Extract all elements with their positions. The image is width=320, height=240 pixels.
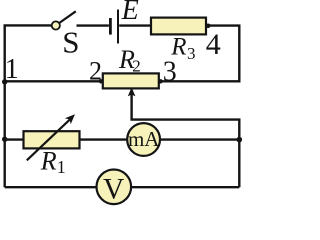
wiper arrow of R2 — [128, 87, 136, 96]
wire node 1 to node 2 — [5, 80, 103, 82]
svg-text:E: E — [121, 0, 139, 26]
battery E long plate — [117, 10, 119, 44]
ammeter mA — [127, 123, 160, 156]
wire left vertical + top wire to switch — [5, 25, 52, 187]
node 1 dot — [2, 79, 7, 84]
resistor R3 — [151, 18, 206, 35]
node dot left of R1 row — [2, 137, 7, 142]
node 3 dot — [158, 79, 162, 83]
voltmeter V — [97, 170, 132, 205]
variable resistor R1 — [24, 131, 80, 148]
svg-text:1: 1 — [57, 157, 66, 177]
wire bottom through V — [5, 186, 240, 188]
svg-text:mA: mA — [128, 127, 160, 151]
svg-text:S: S — [62, 24, 79, 59]
switch S blade — [59, 11, 75, 23]
svg-text:2: 2 — [89, 57, 102, 86]
node dot at R3 right — [206, 24, 211, 29]
svg-text:V: V — [103, 173, 124, 205]
node 2 dot — [99, 79, 103, 83]
svg-text:4: 4 — [206, 28, 221, 61]
wire battery to R3 — [119, 24, 151, 26]
wire R1 row through mA to right junction — [5, 138, 240, 140]
svg-text:R: R — [40, 147, 57, 176]
svg-text:3: 3 — [163, 56, 177, 87]
wire wiper down, right, down right side to bottom — [132, 94, 240, 188]
wire switch to battery — [77, 24, 109, 26]
svg-text:1: 1 — [5, 54, 19, 85]
svg-text:3: 3 — [187, 44, 196, 63]
svg-text:2: 2 — [132, 56, 141, 75]
junction dot right — [237, 137, 243, 143]
battery E short plate — [109, 18, 112, 35]
arrow through R1 — [27, 119, 70, 160]
wire R3 right, down right side to node 3 — [161, 26, 240, 82]
switch S circle — [52, 21, 60, 29]
potentiometer R2 — [103, 73, 159, 88]
